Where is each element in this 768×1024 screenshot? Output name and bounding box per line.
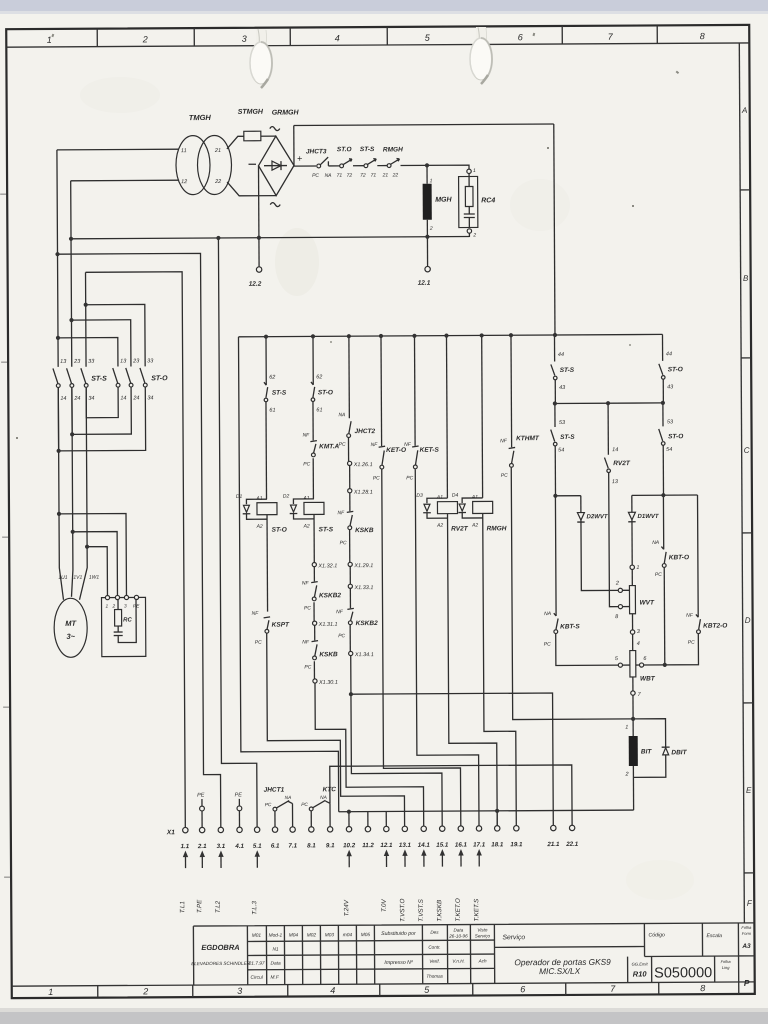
svg-text:1: 1: [473, 168, 476, 174]
PE pigtail at 4.1: [237, 806, 242, 811]
svg-text:NF: NF: [371, 442, 379, 448]
terminal 19.1: [514, 826, 519, 831]
svg-text:STMGH: STMGH: [238, 109, 264, 116]
contact KMT.A: [310, 441, 317, 442]
svg-text:Data: Data: [454, 928, 464, 933]
riser terminal 12.1: [385, 811, 387, 826]
contact ST-S pole 2 (23/24): [67, 368, 72, 383]
wire bridge minus output down: [258, 166, 261, 267]
svg-text:34: 34: [147, 395, 153, 401]
svg-text:PC: PC: [655, 572, 662, 578]
svg-text:Serviço: Serviço: [475, 933, 491, 938]
terminal 16.1: [458, 826, 463, 831]
bridge internal diode: [264, 165, 287, 167]
svg-text:1W1: 1W1: [89, 575, 100, 581]
svg-text:1: 1: [47, 35, 52, 45]
bridge rectifier GRMGH: [258, 136, 294, 196]
svg-text:T.KET.O: T.KET.O: [455, 898, 462, 921]
contact ST-S pole 1 (13/14): [53, 368, 58, 383]
junction node (59,336): [56, 336, 60, 340]
svg-text:ST-O: ST-O: [272, 527, 287, 534]
punched hole right: [470, 38, 492, 80]
svg-text:43: 43: [667, 384, 674, 390]
svg-text:PC: PC: [304, 664, 311, 670]
svg-text:62: 62: [269, 375, 275, 381]
svg-text:T.L1: T.L1: [179, 901, 186, 913]
svg-text:PC: PC: [304, 605, 311, 611]
svg-text:24: 24: [132, 395, 139, 401]
terminal 7.1: [290, 827, 295, 832]
junction node (59,449): [57, 449, 61, 453]
terminal arrows: [183, 849, 482, 868]
svg-text:NF: NF: [500, 438, 508, 444]
svg-text:M05: M05: [361, 932, 371, 938]
paper pull streak above left hole: [256, 29, 266, 47]
junction node (72.6,237): [69, 237, 73, 241]
svg-text:T.L2: T.L2: [215, 900, 222, 913]
svg-text:PC: PC: [544, 642, 551, 648]
junction node (429,165.6): [425, 163, 429, 167]
svg-text:ST-S: ST-S: [91, 376, 107, 383]
junction node (72.6,318.3): [69, 318, 73, 322]
svg-text:DBIT: DBIT: [671, 749, 687, 756]
svg-text:A2: A2: [256, 524, 263, 530]
svg-text:PE: PE: [235, 792, 243, 798]
contact KBT-O: [661, 495, 664, 549]
svg-text:21.7.97: 21.7.97: [248, 961, 265, 967]
svg-text:2: 2: [472, 232, 476, 238]
wire ST-O column feeds: [58, 304, 145, 367]
wire feeder to terminal 1.1: [86, 272, 186, 828]
svg-text:24: 24: [73, 396, 80, 402]
folha/form cells: [720, 925, 752, 970]
svg-text:V.n.H.: V.n.H.: [452, 959, 464, 964]
svg-text:16.1: 16.1: [455, 842, 468, 849]
contact KSPT: [264, 617, 271, 618]
svg-text:54: 54: [666, 447, 672, 453]
svg-text:ST-S: ST-S: [319, 526, 334, 533]
svg-text:Escala: Escala: [706, 933, 722, 939]
svg-text:JHCT2: JHCT2: [355, 428, 376, 435]
svg-text:KET-S: KET-S: [420, 447, 440, 454]
svg-text:NA: NA: [338, 412, 346, 418]
bottom number band top line: [12, 982, 755, 986]
svg-text:12.2: 12.2: [249, 281, 262, 288]
terminal X1.26.1: [348, 461, 352, 465]
svg-text:ST-O: ST-O: [318, 389, 333, 396]
wire top bus drop to ST columns: [554, 124, 555, 335]
svg-text:PC: PC: [688, 640, 695, 646]
transformer TMGH: [176, 135, 210, 194]
svg-text:PC: PC: [303, 461, 310, 467]
column KTHMT: [510, 335, 513, 447]
svg-text:ST.O: ST.O: [337, 146, 352, 153]
svg-text:62: 62: [316, 374, 322, 380]
right band letters A-F: [741, 106, 753, 908]
svg-text:D1: D1: [236, 494, 243, 500]
wire: [377, 165, 387, 167]
svg-text:PC: PC: [340, 540, 347, 546]
contact RMGH (21/22): [387, 164, 391, 168]
svg-text:RV2T: RV2T: [451, 526, 469, 533]
svg-text:4: 4: [335, 33, 340, 43]
svg-text:N1: N1: [272, 947, 278, 953]
junction node (415.5,336): [412, 334, 416, 338]
wire contact bank lower links: [58, 387, 145, 451]
terminal 2.1: [199, 827, 204, 832]
wire transformer pin 12 to L2: [71, 179, 179, 182]
wire to terminal 18.1: [448, 513, 498, 826]
svg-text:Folha: Folha: [741, 925, 752, 930]
svg-text:T.L.3: T.L.3: [251, 900, 258, 914]
svg-text:12.1: 12.1: [380, 842, 393, 849]
wire PE branch to terminal 5.1: [218, 238, 257, 827]
contact KSKB: [312, 641, 319, 642]
svg-text:R10: R10: [633, 969, 648, 978]
wire plus output to contact chain: [294, 165, 316, 167]
junction node (608.7,404.5): [606, 401, 610, 405]
terminal 3.1: [218, 827, 223, 832]
junction node (631.9,720.3): [631, 717, 635, 721]
junction node (260.5,237): [257, 236, 261, 240]
svg-text:5.1: 5.1: [253, 843, 262, 850]
column KET-O: [380, 336, 383, 446]
WBT pin 7: [631, 691, 635, 695]
svg-text:T.KET.S: T.KET.S: [473, 898, 480, 921]
svg-text:D2: D2: [283, 494, 290, 500]
diode D1WVT: [631, 495, 633, 512]
terminal 8.1: [309, 827, 314, 832]
column KSKB chain : contact JHCT2: [348, 336, 350, 418]
contact bank pin labels: [60, 358, 154, 402]
relay coil RV2T with diode D3: [445, 336, 448, 498]
terminal 4.1: [237, 827, 242, 832]
terminal 5.1: [254, 827, 259, 832]
svg-text:P: P: [744, 978, 750, 988]
svg-text:54: 54: [558, 447, 564, 453]
terminal X1.32.1: [312, 562, 316, 566]
junction node (72.6,432.6): [70, 432, 74, 436]
junction node (555.5,404.5): [553, 401, 557, 405]
contact ST.O (71/72): [340, 164, 344, 168]
svg-text:Ach: Ach: [478, 958, 487, 963]
terminal 18.1: [495, 826, 500, 831]
svg-text:71: 71: [371, 173, 377, 179]
brake valve WBT: [630, 651, 636, 677]
terminal 12.1 stub: [426, 237, 428, 266]
svg-text:1.1: 1.1: [181, 843, 190, 850]
svg-text:3: 3: [124, 603, 127, 609]
wire RV2T contact to WVT pin 8: [609, 473, 619, 607]
junction node (314,336): [311, 334, 315, 338]
terminal 22.1: [569, 825, 574, 830]
svg-text:PC: PC: [312, 173, 319, 179]
terminal 21.1: [551, 825, 556, 830]
svg-text:53: 53: [667, 419, 674, 425]
svg-text:13.1: 13.1: [399, 842, 412, 849]
svg-text:RC4: RC4: [481, 197, 495, 204]
wire KTHMT to BIT node: [511, 467, 633, 720]
svg-text:RC: RC: [123, 617, 132, 623]
svg-text:21.1: 21.1: [546, 841, 560, 848]
svg-text:A2: A2: [471, 522, 478, 528]
svg-text:PC: PC: [339, 442, 346, 448]
svg-text:RV2T: RV2T: [613, 460, 631, 467]
svg-text:MT: MT: [65, 619, 77, 628]
svg-text:ST-S: ST-S: [560, 367, 575, 374]
svg-text:T.KSKB: T.KSKB: [436, 900, 443, 922]
junction node (482.7,336): [480, 333, 484, 337]
svg-text:13: 13: [120, 358, 127, 364]
right letter band ticks: [740, 190, 754, 873]
svg-text:X1.29.1: X1.29.1: [353, 563, 373, 569]
svg-text:B: B: [743, 274, 749, 283]
contact KBT2-O: [695, 495, 698, 617]
wire phase L1 vertical: [57, 150, 64, 600]
svg-text:13: 13: [60, 359, 67, 365]
svg-text:T.0V: T.0V: [381, 898, 388, 912]
svg-text:D4: D4: [452, 493, 459, 499]
wire feeder to terminal 3.1: [58, 253, 221, 828]
junction node (59,252.3): [55, 252, 59, 256]
svg-text:1: 1: [625, 725, 628, 731]
wire to terminal 14.1: [315, 682, 424, 826]
wire transformer pin 11 to L1: [57, 148, 179, 151]
wire top bus: [294, 124, 554, 125]
terminal X1.31.1: [313, 621, 317, 625]
svg-text:21: 21: [214, 148, 221, 154]
varistor block RC4: [467, 169, 471, 173]
svg-text:12.1: 12.1: [418, 280, 431, 287]
contact KBT-S: [553, 496, 556, 616]
terminal 6.1: [272, 827, 277, 832]
wire to terminal 19.1: [483, 513, 517, 825]
contact ST-O pole 2 (23/24): [126, 368, 131, 383]
terminal X1.28.1: [348, 489, 352, 493]
capacitor inside RC: [114, 600, 137, 643]
svg-text:D: D: [745, 616, 751, 625]
wire net C left: [555, 495, 580, 497]
svg-text:19.1: 19.1: [510, 841, 523, 848]
svg-text:C: C: [744, 446, 750, 455]
svg-text:ST-O: ST-O: [668, 366, 683, 373]
svg-text:PC: PC: [373, 476, 380, 482]
svg-text:NA: NA: [652, 540, 660, 546]
svg-text:Código: Código: [648, 932, 665, 938]
svg-text:A: A: [741, 106, 747, 115]
svg-text:6.1: 6.1: [271, 843, 280, 850]
svg-text:3~: 3~: [66, 632, 75, 641]
svg-text:3: 3: [237, 986, 242, 996]
svg-text:PC: PC: [265, 802, 272, 808]
svg-text:13: 13: [612, 479, 619, 485]
wire transformer pin 21 to bridge: [227, 136, 276, 149]
wire net C right: [632, 494, 698, 496]
svg-text:1: 1: [48, 987, 53, 997]
right letter band inner line: [739, 43, 744, 923]
svg-text:NF: NF: [252, 611, 260, 617]
svg-text:GG.Emit: GG.Emit: [632, 961, 649, 966]
bottom band cell separators: [98, 982, 659, 997]
svg-text:26-10-96: 26-10-96: [448, 934, 468, 939]
contact ST-O pole 3 (33/34): [140, 368, 145, 383]
junction node (349.9,336): [347, 334, 351, 338]
rotated wire tags: [179, 897, 480, 923]
svg-text:7.1: 7.1: [288, 843, 297, 850]
junction node (555.5,496.8): [553, 494, 557, 498]
svg-text:1: 1: [430, 178, 433, 184]
diode D2WVT: [580, 496, 582, 513]
svg-text:3: 3: [242, 34, 247, 44]
wire KTC to terminal 22.1: [330, 765, 572, 827]
svg-text:T.VST.S: T.VST.S: [418, 898, 425, 921]
svg-text:14: 14: [120, 395, 126, 401]
svg-text:Des: Des: [430, 930, 439, 935]
svg-text:61: 61: [316, 407, 322, 413]
svg-text:ST-O: ST-O: [668, 433, 683, 440]
svg-text:MIC.SX/LX: MIC.SX/LX: [539, 966, 581, 976]
svg-text:M01: M01: [252, 933, 262, 939]
svg-text:KMT.A: KMT.A: [319, 443, 339, 450]
svg-text:Thomas: Thomas: [426, 974, 443, 979]
svg-text:M02: M02: [307, 932, 317, 938]
svg-text:44: 44: [558, 352, 564, 358]
junction node (347.2,811.5): [347, 810, 351, 814]
svg-text:NA: NA: [320, 795, 327, 801]
svg-text:21: 21: [382, 172, 389, 178]
junction node (86.9,545): [85, 545, 89, 549]
svg-text:JHCT1: JHCT1: [264, 787, 285, 794]
contact ST-S 44/43: [553, 335, 555, 361]
svg-text:T.24V: T.24V: [343, 899, 350, 916]
svg-text:3.1: 3.1: [217, 843, 226, 850]
svg-text:+: +: [297, 153, 302, 163]
svg-text:M04: M04: [289, 932, 299, 938]
wire DC return bus: [71, 237, 469, 239]
junction node (495.4,811.5): [495, 809, 499, 813]
junction node (447.5,336): [444, 334, 448, 338]
contact KSKB: [347, 511, 354, 512]
wire to terminal 17.1: [415, 469, 479, 826]
svg-text:NF: NF: [337, 510, 345, 516]
svg-text:2: 2: [615, 581, 619, 587]
svg-text:NA: NA: [325, 173, 333, 179]
svg-text:X1.32.1: X1.32.1: [317, 563, 337, 569]
wire phase L3 vertical: [78, 272, 88, 599]
svg-text:10.2: 10.2: [343, 842, 356, 849]
contact KSKB2: [311, 582, 318, 583]
svg-text:72: 72: [360, 173, 366, 179]
wire bridge plus up to top bus: [293, 126, 295, 166]
wire to terminal 13.1: [267, 632, 405, 827]
wire branch to terminal 21.1: [351, 693, 553, 826]
svg-text:8: 8: [700, 31, 705, 41]
contact KSKB2: [347, 608, 354, 609]
svg-text:ST-S: ST-S: [560, 434, 575, 441]
wire RC box taps: [59, 513, 126, 595]
svg-text:E: E: [746, 786, 752, 795]
svg-text:72: 72: [347, 173, 353, 179]
contact ST-S 53/54: [554, 404, 556, 427]
svg-text:1: 1: [636, 565, 639, 571]
svg-text:Verif.: Verif.: [429, 959, 440, 964]
svg-text:KBT2-O: KBT2-O: [703, 623, 727, 630]
wire phase L2 vertical: [69, 181, 73, 597]
terminal X1.33.1: [348, 584, 352, 588]
svg-text:Contr.: Contr.: [428, 945, 440, 950]
junction node (86.9,303): [84, 303, 88, 307]
svg-text:4: 4: [330, 985, 335, 995]
junction node (220,237): [216, 236, 220, 240]
svg-text:12: 12: [181, 179, 187, 185]
door valve WVT: [630, 565, 634, 569]
svg-text:M.F: M.F: [271, 975, 280, 981]
terminal 11.2: [365, 826, 370, 831]
bottom band numbers 1-8: [48, 983, 705, 997]
svg-text:X1.28.1: X1.28.1: [353, 490, 373, 496]
wire center supply bus: [238, 334, 662, 336]
terminal 12.1: [384, 826, 389, 831]
svg-text:44: 44: [666, 351, 672, 357]
suppressor box RC: [101, 597, 145, 656]
junction node (349.9,694): [349, 692, 353, 696]
svg-text:ST-S: ST-S: [360, 146, 375, 153]
top scanner gray band: [0, 0, 768, 13]
svg-text:23: 23: [73, 359, 81, 365]
terminal 10.2: [346, 826, 351, 831]
junction node (663.9,666.5): [663, 663, 667, 667]
junction node (663.5,496.8): [661, 493, 665, 497]
contact ST-O 53/54: [662, 403, 664, 426]
svg-text:S050000: S050000: [654, 965, 712, 981]
junction node (512,336): [509, 333, 513, 337]
wire D1WVT to WVT pin 1: [631, 520, 633, 565]
svg-text:KSPT: KSPT: [272, 622, 290, 629]
terminal 9.1: [327, 827, 332, 832]
svg-text:KET-O: KET-O: [386, 447, 406, 454]
svg-text:22.1: 22.1: [565, 841, 579, 848]
terminal 17.1: [476, 826, 481, 831]
resistor inside RC: [115, 610, 122, 627]
svg-text:33: 33: [147, 358, 154, 364]
svg-text:1V1: 1V1: [73, 575, 82, 581]
svg-text:NF: NF: [686, 613, 694, 619]
svg-text:PC: PC: [501, 473, 508, 479]
svg-text:KSKB2: KSKB2: [356, 620, 378, 627]
svg-text:PC: PC: [406, 475, 413, 481]
svg-text:Impresso Nº: Impresso Nº: [384, 960, 414, 966]
terminal 15.1: [440, 826, 445, 831]
svg-text:17.1: 17.1: [473, 841, 486, 848]
svg-text:71: 71: [337, 173, 343, 179]
title block vertical separators: [247, 923, 738, 997]
contact ST-O 44/43: [661, 334, 663, 360]
svg-text:18.1: 18.1: [491, 841, 504, 848]
contact RV2T 14/13: [607, 403, 609, 454]
wire: [328, 165, 339, 167]
wire D2WVT to WVT pin 2: [581, 520, 618, 591]
svg-text:X1.31.1: X1.31.1: [318, 622, 338, 628]
svg-text:ST-S: ST-S: [272, 390, 287, 397]
svg-text:X1.30.1: X1.30.1: [318, 680, 338, 686]
svg-text:NA: NA: [285, 795, 292, 801]
terminal X1.34.1: [349, 651, 353, 655]
wire: [353, 165, 364, 167]
relay coil RMGH with diode D4: [481, 335, 484, 497]
svg-text:X1.34.1: X1.34.1: [354, 652, 374, 658]
svg-text:T.PE: T.PE: [196, 899, 203, 913]
svg-text:11.2: 11.2: [362, 842, 374, 849]
